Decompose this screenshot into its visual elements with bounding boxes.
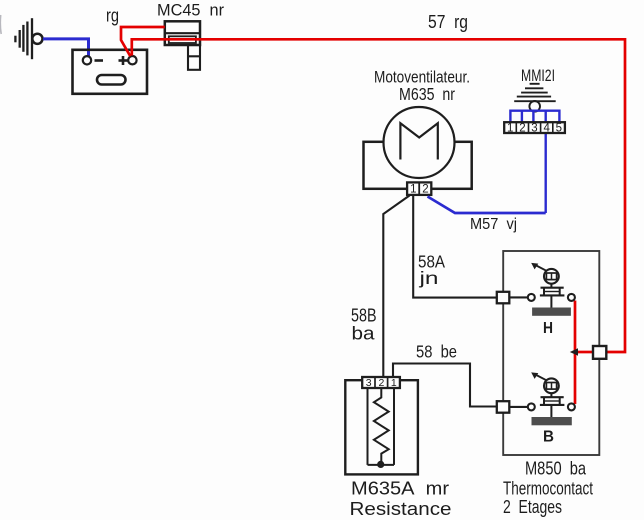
- svg-text:1: 1: [391, 377, 397, 389]
- svg-text:2: 2: [422, 184, 428, 196]
- svg-text:ba: ba: [352, 323, 376, 344]
- svg-text:1: 1: [410, 184, 416, 196]
- svg-text:3: 3: [366, 377, 372, 389]
- svg-text:2: 2: [519, 122, 525, 134]
- svg-text:M57 vj: M57 vj: [470, 216, 517, 233]
- svg-text:H: H: [543, 320, 553, 337]
- svg-text:2 Etages: 2 Etages: [503, 497, 562, 517]
- svg-text:57 rg: 57 rg: [428, 11, 468, 32]
- svg-text:jn: jn: [418, 268, 438, 288]
- svg-text:M850 ba: M850 ba: [525, 459, 587, 479]
- svg-text:Thermocontact: Thermocontact: [503, 479, 593, 499]
- svg-text:1: 1: [507, 122, 513, 134]
- svg-text:58 be: 58 be: [416, 342, 457, 362]
- svg-text:4: 4: [543, 122, 550, 134]
- svg-text:5: 5: [556, 122, 562, 134]
- svg-text:M635 nr: M635 nr: [399, 84, 455, 104]
- svg-text:3: 3: [531, 122, 537, 134]
- svg-text:M635A mr: M635A mr: [351, 479, 449, 499]
- svg-text:B: B: [543, 429, 554, 446]
- svg-text:MC45 nr: MC45 nr: [157, 1, 224, 20]
- svg-text:2: 2: [378, 377, 384, 389]
- svg-text:MMI2I: MMI2I: [521, 66, 555, 85]
- svg-text:rg: rg: [106, 6, 119, 26]
- svg-text:Resistance: Resistance: [350, 499, 452, 519]
